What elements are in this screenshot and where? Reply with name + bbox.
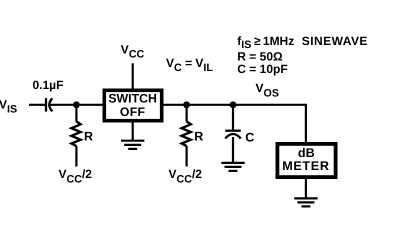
wire VCC down to switch box <box>132 63 134 90</box>
svg-text:R: R <box>84 129 93 143</box>
ground under switch box <box>121 141 144 149</box>
capacitor C1 (0.1uF coupling) <box>46 98 52 112</box>
capacitor C2 <box>225 131 241 139</box>
svg-text:C = 10pF: C = 10pF <box>237 62 287 76</box>
svg-text:VOS: VOS <box>256 81 279 99</box>
svg-text:VCC/2: VCC/2 <box>169 167 203 186</box>
svg-text:VCC/2: VCC/2 <box>59 167 93 186</box>
wire node B down to resistor R2 <box>186 105 188 122</box>
node A junction dot <box>73 101 80 108</box>
wire R1 to VCC/2 terminal <box>75 146 77 167</box>
wire R2 to VCC/2 terminal <box>186 146 188 167</box>
wire node C down to capacitor C2 <box>232 105 234 130</box>
wire node A down to resistor R1 <box>75 105 77 122</box>
dB meter box M1 <box>277 144 335 177</box>
wire switch box down to ground <box>132 123 134 141</box>
svg-text:VC = VIL: VC = VIL <box>166 56 213 74</box>
wire C2 down to ground <box>232 137 234 163</box>
node B junction dot <box>183 101 190 108</box>
svg-text:SWITCH: SWITCH <box>108 92 157 106</box>
svg-text:VCC: VCC <box>121 43 145 61</box>
svg-text:METER: METER <box>282 159 329 173</box>
node C junction dot <box>230 101 237 108</box>
resistor R1 <box>71 121 80 146</box>
svg-text:0.1µF: 0.1µF <box>33 78 64 92</box>
wire dB meter down to ground <box>305 179 307 198</box>
wire switch box output to dB meter corner <box>163 105 306 143</box>
switch box U1 <box>104 90 161 120</box>
resistor R2 <box>182 121 191 146</box>
ground under capacitor C2 <box>221 163 244 171</box>
svg-text:C: C <box>245 130 254 144</box>
svg-text:VIS: VIS <box>0 98 17 116</box>
wire from VIS to capacitor C1 <box>29 104 45 106</box>
svg-text:OFF: OFF <box>120 105 146 119</box>
svg-text:R: R <box>194 129 203 143</box>
svg-text:dB: dB <box>298 146 315 160</box>
ground under dB meter <box>294 198 317 206</box>
svg-text:fIS≥1MHzSINEWAVE: fIS≥1MHzSINEWAVE <box>237 34 368 51</box>
wire from C1 to switch box <box>51 104 104 106</box>
